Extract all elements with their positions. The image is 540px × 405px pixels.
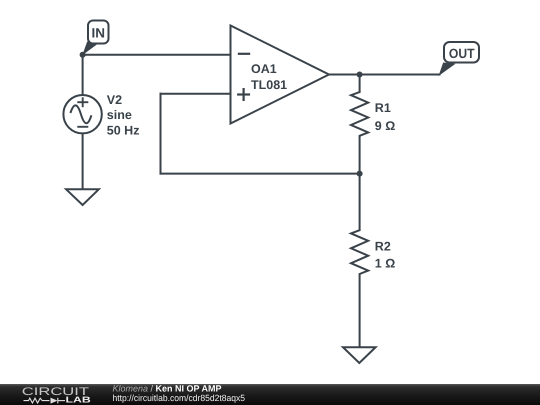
label V2 value [107,93,140,138]
V2 minus terminal marker [77,126,88,128]
wire IN node to op-amp inverting input [83,54,231,56]
svg-text:OUT: OUT [449,46,475,61]
svg-text:50 Hz: 50 Hz [107,124,140,138]
wire feedback horizontal segment [161,173,360,175]
ground (under R2) [343,347,376,363]
V2 plus terminal marker [77,101,88,103]
label R2 1 ohm [375,240,395,271]
wire IN node down to V2 top [82,55,84,95]
resistor R2 [351,229,395,274]
resistor R1 [351,91,395,137]
IN flag tail [82,42,97,56]
svg-text:http://circuitlab.com/cdr85d2t: http://circuitlab.com/cdr85d2t8aqx5 [113,393,246,403]
wire V2 bottom to ground [82,134,84,190]
svg-text:OA1: OA1 [251,62,277,76]
R1 zigzag body [351,91,368,137]
op-amp U1 (OA1) [231,26,330,124]
wire R2 bottom to ground [359,275,361,348]
logo diode symbol [51,398,58,404]
op-amp inverting input marker (-) [238,53,250,55]
label OA1 TL081 [251,62,287,92]
logo schematic squiggle [24,398,66,404]
node B (output node) [357,72,363,78]
svg-text:LAB: LAB [66,395,91,405]
wire feedback to op-amp non-inverting input [161,93,231,95]
V2 body circle [63,95,101,133]
svg-text:R2: R2 [375,240,391,254]
OUT flag tail [439,63,456,77]
svg-text:IN: IN [91,26,105,41]
label R1 9 ohm [375,101,395,133]
svg-text:V2: V2 [107,93,122,107]
wire feedback node down to R2 top [359,174,361,230]
node A (input node) [80,52,86,58]
node C (feedback node) [357,171,363,177]
svg-text:1 Ω: 1 Ω [375,256,395,270]
wire op-amp output to OUT [329,74,440,76]
ground (under V2) [66,189,99,205]
port flag / net IN [82,21,108,56]
svg-text:TL081: TL081 [251,78,287,92]
svg-text:9 Ω: 9 Ω [375,119,395,133]
svg-text:R1: R1 [375,101,391,115]
voltage source V2 [63,95,101,133]
wire output node down to R1 top [359,75,361,92]
op-amp OA1 triangle body [231,26,330,124]
V2 sine waveform symbol [70,105,91,123]
wire feedback vertical segment [160,94,162,174]
IN flag box [88,21,109,44]
R2 zigzag body [351,229,368,274]
port flag / net OUT [439,42,480,76]
wire R1 bottom to feedback node [359,137,361,174]
op-amp non-inverting input marker (+) [237,93,250,95]
footer bar [0,384,540,405]
svg-text:sine: sine [107,108,132,122]
OUT flag box [444,42,479,63]
